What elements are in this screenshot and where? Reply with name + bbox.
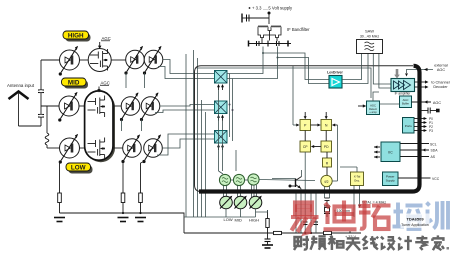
svg-text:HIGH: HIGH: [68, 33, 84, 40]
IF output bus to band filter: [227, 47, 278, 142]
ground G3: [135, 218, 146, 222]
svg-text:MID: MID: [235, 218, 242, 223]
divider R: [323, 158, 332, 167]
mixer M3 LO arrows: [217, 144, 224, 150]
svg-text:Ports: Ports: [405, 124, 413, 128]
port output arrows P0-P3: [414, 117, 433, 133]
wire rail to MID varactor: [41, 105, 59, 107]
watermark gray char pin: [311, 236, 326, 250]
band pad HIGH: [249, 196, 262, 223]
wire VD4 to T2: [79, 105, 85, 107]
SAW to IF amplifier wires: [373, 54, 391, 89]
antenna input label: [7, 83, 35, 88]
oscillator OSC3: [248, 174, 259, 185]
AGC arrow into T2: [97, 81, 110, 93]
svg-text:CP: CP: [303, 145, 308, 149]
svg-text:to Channel: to Channel: [431, 81, 450, 85]
svg-text:HIGH: HIGH: [249, 218, 259, 223]
watermark char pei (blue): [393, 203, 423, 230]
svg-text:N: N: [325, 124, 328, 128]
svg-text:LevDriver: LevDriver: [327, 71, 343, 75]
mixer M2: [215, 101, 228, 114]
svg-text:IF amplifier: IF amplifier: [395, 91, 412, 95]
watermark gray char zhuan: [415, 236, 428, 250]
mixer M3: [215, 131, 228, 144]
divider N: [321, 120, 332, 131]
capacitor C2 on input rail: [38, 115, 44, 118]
AGC distribution line: [197, 68, 372, 98]
wire antenna to input rail: [19, 125, 42, 127]
IF amplifier block: [391, 79, 415, 96]
supply label: [249, 6, 293, 11]
band pad LOW: [220, 196, 233, 222]
ground G2: [118, 218, 129, 222]
svg-text:IIC: IIC: [388, 151, 393, 155]
supply node: [268, 12, 271, 25]
watermark period: [447, 247, 450, 250]
loop filter caps: [303, 194, 318, 235]
MOSFET T3 LOW amplifier: [88, 138, 106, 160]
svg-text:LOW: LOW: [224, 217, 233, 222]
external AGC wire arrow: [405, 64, 448, 77]
wire MID bandpass to mixer2: [155, 105, 215, 113]
divider P: [300, 120, 311, 131]
watermark gray char ji: [398, 236, 412, 250]
ground G1: [54, 218, 65, 222]
varactor VD7 LOW input: [59, 134, 80, 164]
wire input rail vertical: [40, 60, 42, 126]
AGC output pin: [412, 100, 442, 105]
SECTION: watermark: [291, 201, 449, 251]
SECTION: top IF filter / SAW: [242, 6, 383, 54]
svg-text:AGC: AGC: [437, 68, 445, 72]
resistor R2: [121, 193, 125, 213]
IIC left arrows: [374, 146, 380, 159]
wire LOW bandpass to mixer3: [157, 134, 215, 155]
watermark char tuo (red): [359, 201, 391, 230]
tuning stubs MID bandpass: [122, 120, 142, 132]
svg-text:+ 3.3 .....5 Volt supply: + 3.3 .....5 Volt supply: [252, 6, 293, 11]
mixer M1 LO arrows: [217, 84, 224, 90]
LO distribution wires: [219, 90, 237, 174]
watermark char di (red): [324, 201, 357, 230]
tuning voltage output wire: [304, 152, 306, 233]
IIC bus pins SCL SDA AS: [401, 142, 439, 159]
LevDriver to SAW wires: [342, 54, 368, 84]
svg-text:P3: P3: [429, 129, 433, 133]
MOSFET T2 MID amplifier: [88, 96, 106, 118]
watermark gray char tian: [346, 238, 361, 250]
IF feed to LevDriver: [262, 52, 329, 84]
svg-text:TDA6509: TDA6509: [406, 217, 424, 222]
watermark gray char she: [294, 236, 309, 250]
LevDriver label: [327, 71, 343, 75]
SECTION: left RF front-end: [7, 31, 215, 233]
wire VD8 dot to resistor R2: [122, 162, 124, 194]
SAW filter box: [357, 40, 383, 54]
main 33V rail: [184, 232, 361, 234]
svg-text:Osc.: Osc.: [354, 179, 360, 183]
wire VD7 to T3: [80, 147, 85, 149]
wire VD1 to T1: [80, 59, 89, 61]
svg-text:AGC: AGC: [101, 81, 110, 86]
IF amplifier outputs to channel decoder: [415, 80, 450, 89]
mixer M2 LO arrows: [217, 115, 224, 121]
svg-text:Decoder: Decoder: [433, 85, 448, 89]
divider f/2: [321, 175, 332, 186]
fxtal note: [362, 201, 386, 205]
wire MID to LOW tap: [46, 106, 48, 133]
svg-text:IF Bandfilter: IF Bandfilter: [287, 27, 310, 32]
inductor L1: [45, 133, 49, 148]
svg-text:30...40 MHz: 30...40 MHz: [360, 35, 380, 39]
svg-text:Tuner Application: Tuner Application: [401, 223, 429, 227]
phase detector PD: [321, 141, 332, 152]
varactor VD5 MID bandpass a: [120, 92, 140, 121]
varactor VD6 MID bandpass b: [140, 92, 160, 121]
label HIGH: [63, 31, 91, 42]
ports block: [403, 118, 415, 134]
varactor VD1 HIGH input: [59, 46, 80, 76]
VCC pin: [398, 177, 440, 181]
resistor R4: [256, 210, 270, 233]
AGC arrow into T1: [98, 36, 111, 49]
wire AGC detector to buffer: [373, 92, 400, 104]
SECTION: bottom network: [184, 194, 386, 249]
SAW filter label: [360, 29, 380, 39]
svg-text:MID: MID: [68, 80, 80, 87]
type label TDA6509: [401, 214, 430, 229]
band pad return wires: [184, 209, 256, 217]
PLL wires: [293, 66, 357, 181]
wire HIGH bandpass to mixer1: [158, 60, 215, 79]
watermark char yi (red): [291, 203, 319, 234]
resistor R5 horizontal: [274, 231, 282, 234]
mixer M1: [215, 71, 228, 84]
AGC pin capacitor: [421, 108, 440, 114]
svg-text:external: external: [434, 64, 448, 68]
watermark gray char xian: [363, 236, 378, 250]
tuning stubs HIGH bandpass: [126, 73, 145, 88]
tuning line bundle: [186, 50, 206, 217]
xtal note: [334, 209, 350, 213]
IC outline TDA6509 (thin part): [195, 66, 414, 192]
watermark gray char she2: [381, 237, 395, 250]
IF bandfilter transformer: [258, 26, 281, 38]
MOSFET T1 HIGH amplifier: [88, 49, 111, 72]
svg-text:SCL: SCL: [430, 142, 437, 146]
varactor VD2 HIGH bandpass a: [124, 46, 144, 75]
svg-text:Supply: Supply: [386, 179, 396, 183]
watermark char xun (blue): [427, 201, 449, 230]
band pad MID: [234, 196, 247, 223]
svg-text:Antenna input: Antenna input: [7, 83, 35, 88]
supply tick 33V: [345, 231, 357, 239]
wire VD7 dot to resistor R1: [59, 162, 61, 193]
svg-text:LOW: LOW: [71, 165, 86, 172]
capacitor C1 on input rail: [38, 90, 44, 93]
watermark gray char jia: [432, 235, 444, 250]
varactor VD4 MID input: [58, 92, 79, 122]
resistor R1: [58, 193, 62, 213]
IIC bus transceiver block: [381, 142, 400, 162]
IC outline TDA6509 (thick shadow border): [199, 66, 420, 192]
svg-text:Buffer: Buffer: [402, 102, 409, 106]
wire oscillators to divider chain: [231, 180, 315, 181]
SECTION: IC block: [195, 47, 450, 234]
oscillator OSC1: [219, 174, 230, 185]
wires oscillators to pads: [224, 185, 257, 197]
svg-text:AGC: AGC: [403, 98, 409, 102]
oscillator OSC2: [233, 174, 244, 185]
AGC detector block: [367, 101, 380, 115]
varactor VD8 LOW bandpass a: [121, 134, 141, 163]
capacitor C4 to ground: [265, 233, 271, 245]
label LOW: [66, 163, 93, 174]
AGC gray arrow into IF amplifier: [394, 69, 400, 79]
transistor Q1: [272, 170, 302, 233]
watermark gray char he: [328, 236, 343, 250]
antenna symbol: [9, 92, 29, 127]
svg-text:AGC: AGC: [433, 101, 441, 105]
svg-text:SAW: SAW: [365, 29, 374, 34]
IF bandfilter label: [287, 27, 310, 32]
dual MOSFET package outline: [85, 91, 115, 162]
crystal X1: [324, 198, 354, 217]
supply decoupling capacitor: [242, 14, 269, 23]
charge pump CP: [300, 141, 311, 152]
IF filter capacitor row: [249, 31, 292, 47]
wire T2 to MID bandpass: [113, 105, 122, 107]
wire rail to HIGH varactor: [41, 59, 60, 61]
ground G4: [262, 245, 273, 248]
svg-text:SDA: SDA: [431, 149, 439, 153]
crystal oscillator block: [351, 172, 364, 186]
wire inductor to LOW varactor: [47, 147, 60, 149]
AGC buffer block: [400, 96, 412, 108]
varactor VD9 LOW bandpass b: [142, 134, 162, 163]
wire T1 to HIGH bandpass: [111, 59, 126, 61]
label MID: [62, 78, 89, 89]
resistor R6 horizontal: [324, 231, 332, 234]
wire T3 to LOW bandpass: [113, 147, 123, 149]
svg-text:f/2: f/2: [325, 180, 329, 184]
wire VD9 dot to resistor R3: [141, 162, 145, 194]
resistor R3: [139, 193, 143, 213]
tuning voltage rail: [60, 212, 185, 233]
svg-text:VCC: VCC: [432, 177, 440, 181]
power supply block: [383, 172, 399, 186]
xtal pin wires: [325, 186, 362, 209]
arrow into AGC detector: [358, 104, 366, 107]
svg-text:PD: PD: [324, 145, 329, 149]
svg-text:AS: AS: [431, 155, 436, 159]
svg-text:+ amp: + amp: [369, 111, 377, 114]
LevDriver block: [329, 76, 342, 89]
varactor VD3 HIGH bandpass b: [143, 46, 163, 75]
